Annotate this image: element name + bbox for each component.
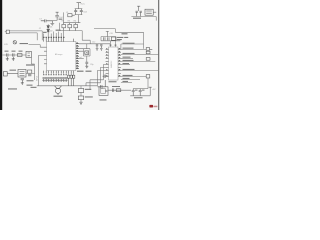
label bottom left caption <box>8 88 17 89</box>
svg-text:C7: C7 <box>39 19 42 21</box>
label reg values <box>27 80 34 86</box>
label line3b <box>123 57 131 58</box>
capacitor C6 <box>13 53 14 56</box>
resistor R5 <box>17 54 22 57</box>
regulator U3 <box>18 69 26 77</box>
wire caps top rail <box>133 88 148 90</box>
node split for C1/C2 <box>75 8 83 10</box>
wire vertical feed right of C3 <box>62 12 64 22</box>
U2 left pin number blobs <box>106 48 107 76</box>
power flag top right <box>137 6 140 11</box>
capacitor C8 (xtal) <box>85 62 88 66</box>
wire top right rail <box>131 12 156 20</box>
U1 left pins <box>44 47 47 64</box>
svg-text:C12: C12 <box>92 42 95 44</box>
capacitor C16 <box>139 89 142 96</box>
power flag +5V (bottom) <box>149 87 152 96</box>
U1 bottom pin numbers <box>43 74 67 75</box>
power flag AVCC (left of cluster) <box>56 12 59 15</box>
IC U2 body (driver) <box>109 47 119 80</box>
label relay parts <box>112 86 120 87</box>
capacitor C14 <box>112 88 113 92</box>
capacitor CP1 (charge pump) <box>103 75 109 78</box>
wire stub mid <box>121 57 133 59</box>
wire comb above U1 top pins <box>44 31 64 38</box>
diode D5 on line7 <box>146 75 150 78</box>
ground C6 <box>12 57 15 61</box>
capacitor C10 <box>108 37 109 40</box>
wire U1 pin11 to node B <box>79 43 110 45</box>
capacitor C5 <box>7 53 8 56</box>
resistor R12 <box>73 75 75 86</box>
diode D1 <box>47 26 50 28</box>
wire long line 6 <box>121 69 158 71</box>
MCU U1 body <box>47 42 76 71</box>
capacitor C19 <box>136 11 138 16</box>
capacitor C18 (below reg) <box>21 78 24 82</box>
wire reset chain <box>2 54 26 56</box>
crystal loop wires <box>79 49 90 62</box>
bypass caps row under U1 <box>42 78 67 82</box>
wire serial line 4 (RXD) <box>121 60 155 62</box>
transistor Q1 box <box>78 89 83 93</box>
wire pair to MCU <box>9 31 42 33</box>
capacitor C9 <box>104 37 105 40</box>
wire second column <box>89 86 91 90</box>
wire serial line 2 <box>121 48 146 50</box>
resistor R14 <box>116 89 121 92</box>
ground C5 <box>6 57 9 61</box>
resistor R11 <box>70 75 72 86</box>
label K1 <box>100 99 107 100</box>
resistor R3 <box>68 23 72 31</box>
label under rail top right <box>133 18 141 19</box>
label J1 <box>10 70 17 71</box>
diode D3 <box>146 48 152 51</box>
label line2 <box>123 48 134 49</box>
label under U2 <box>109 81 117 82</box>
wire serial line 3 (TXD) <box>121 53 158 55</box>
svg-text:104: 104 <box>83 11 87 13</box>
wire crystal top tee <box>86 44 88 49</box>
label buzzer <box>54 96 63 97</box>
svg-text:22p: 22p <box>90 64 93 66</box>
wire R13 down <box>80 100 82 102</box>
label node <box>59 19 63 20</box>
node label blob above pins <box>43 30 61 33</box>
resistor R4 <box>74 23 78 31</box>
hook wire 2 <box>86 67 106 82</box>
ISP header stem <box>39 55 45 85</box>
U1 top pin numbers <box>43 37 65 38</box>
label line5 <box>123 63 130 64</box>
capacitor C1 <box>74 9 77 15</box>
U2 pin number blobs right <box>119 48 121 76</box>
wire from C3 <box>52 19 57 21</box>
U1 right pins <box>76 44 79 69</box>
power flag VCC (top centre) <box>77 3 82 9</box>
wire drop from D5 <box>147 78 149 89</box>
svg-text:D1: D1 <box>50 26 52 28</box>
wire join under C1/C2 <box>75 15 83 23</box>
connector J1 power jack <box>3 72 18 76</box>
label pin row right <box>77 71 92 72</box>
bottom bus wire <box>37 85 98 87</box>
connector J2 (left plug) <box>5 30 9 33</box>
capacitor C3 <box>55 16 59 21</box>
ground below C4 node <box>50 21 54 26</box>
wire top serial run <box>94 29 144 49</box>
svg-text:+5V: +5V <box>109 33 113 35</box>
resistor R7 <box>146 51 150 54</box>
U2 left pins <box>106 49 109 76</box>
capacitor C4 (series) <box>41 19 53 22</box>
wire cap top rail <box>101 37 116 41</box>
U2 top pin marks <box>110 45 117 46</box>
crystal Y1 <box>85 51 89 55</box>
capacitor C15 <box>132 89 135 96</box>
resistor R13 <box>78 96 83 100</box>
label lower stubs <box>123 78 130 82</box>
capacitor C12 (left of U2) <box>96 44 98 48</box>
wire relay row <box>108 89 131 91</box>
logo (red) bottom right <box>149 105 157 108</box>
wire hooks drop to bus <box>86 80 90 86</box>
diode D2 <box>47 29 50 31</box>
U1 bottom pins <box>44 71 74 74</box>
label power section <box>26 64 34 65</box>
svg-text:MAX232: MAX232 <box>110 61 113 68</box>
wire serial line 1 <box>121 44 144 49</box>
svg-text:D2: D2 <box>50 30 52 32</box>
U1 right pin numbers <box>76 43 78 69</box>
switch SW1 box <box>26 51 31 57</box>
label R13 <box>85 96 93 97</box>
wire pot to U1 <box>29 45 45 48</box>
right scan border <box>158 0 159 110</box>
ground C12 <box>96 48 99 50</box>
label C15 C16 <box>135 90 145 91</box>
LCD contrast pot RV1 <box>13 41 16 44</box>
resistor R10 <box>68 75 70 86</box>
label pot <box>20 43 29 44</box>
hook wire 3 <box>98 70 106 85</box>
label C9 C10 row <box>117 33 128 40</box>
svg-text:+5V: +5V <box>152 89 156 91</box>
power flag +5V (mid) <box>106 31 109 36</box>
label line7 <box>123 75 133 76</box>
wire bus down to Q1 <box>80 86 82 89</box>
wire from resistor rail to node B <box>82 31 90 44</box>
ground C13 <box>100 48 103 50</box>
U1 top pins <box>44 38 74 42</box>
label line4 <box>123 60 134 61</box>
svg-text:J2: J2 <box>39 28 41 30</box>
wire U1 pin right short <box>79 58 84 60</box>
capacitor C20 <box>140 11 142 16</box>
wire SW1 down <box>31 57 34 64</box>
resistor R8 <box>146 58 150 61</box>
wire bottom right rail <box>130 95 150 97</box>
capacitor C11 box <box>111 37 115 40</box>
U2 right pins <box>118 49 121 76</box>
wire diode to pin <box>47 24 49 38</box>
resistor R2 <box>62 23 66 31</box>
buzzer LS1 <box>55 86 62 95</box>
relay K1 outer <box>99 87 108 96</box>
wire caps feed <box>97 43 101 46</box>
capacitor CP2 (charge pump low) <box>98 80 106 89</box>
wire pins 11-13 drop <box>69 74 74 76</box>
label line6 <box>123 69 135 70</box>
capacitor C17 <box>28 74 31 75</box>
regulator U4 box <box>145 9 153 15</box>
capacitor C2 <box>80 9 83 15</box>
label line1 <box>123 43 135 44</box>
left scan border <box>0 0 2 110</box>
ground xtal <box>85 66 88 68</box>
svg-text:ISP10: ISP10 <box>36 76 38 81</box>
svg-text:R4: R4 <box>74 21 76 23</box>
svg-text:VCC: VCC <box>80 4 85 6</box>
svg-text:ATmega: ATmega <box>55 53 63 56</box>
svg-text:R2: R2 <box>62 21 64 23</box>
svg-text:104: 104 <box>59 17 63 19</box>
label under bus left <box>31 87 37 88</box>
ground reg <box>21 83 24 85</box>
svg-text:LCD: LCD <box>4 44 9 46</box>
wire top rail <box>63 22 80 24</box>
svg-text:R3: R3 <box>68 21 70 23</box>
diode D4 <box>28 70 32 73</box>
label line3 <box>123 53 135 54</box>
ground Q1 <box>79 102 82 104</box>
inductor L1 <box>68 14 75 17</box>
wire U2 lower stubs <box>121 79 140 82</box>
wire drop to MCU left pins <box>37 31 42 40</box>
wire Q1 to R13 <box>80 93 82 97</box>
wire line 7 with drop <box>121 75 146 77</box>
label row reset chain <box>5 51 23 52</box>
wire stub line 5 <box>121 63 130 65</box>
wire cap rail <box>101 41 120 47</box>
label under rail <box>134 97 143 98</box>
wire reg rail <box>26 64 35 80</box>
relay K1 coil <box>101 89 107 94</box>
wire lower rail of resistor bank <box>59 23 82 31</box>
capacitor C13 <box>100 44 102 48</box>
label Q1 <box>85 89 92 90</box>
hook wire 1 (U2 to bus) <box>90 64 106 79</box>
